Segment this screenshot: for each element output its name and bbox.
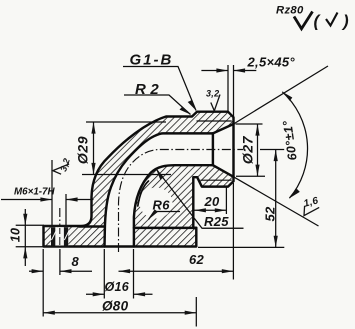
svg-text:3,2: 3,2: [206, 89, 219, 99]
svg-text:62: 62: [189, 252, 205, 267]
R6 fillet hook arc: [138, 181, 149, 206]
Ø27: [255, 124, 259, 136]
roughness tick top (3,2): [211, 95, 220, 111]
Ø29 ext lines: [86, 121, 166, 123]
R6 arrow: [149, 209, 158, 219]
60 deg arc: [282, 92, 307, 198]
52 dim: [275, 150, 277, 248]
G1-B leader: [123, 67, 196, 111]
62: [119, 269, 131, 273]
2,5x45 dim line: [201, 70, 228, 72]
M6 dim line: [1, 199, 52, 201]
outer contour left/top: [44, 112, 234, 247]
bore outer curve: [105, 133, 213, 246]
svg-text:М6×1-7Н: М6×1-7Н: [14, 187, 55, 198]
R2 leader arrow: [180, 107, 191, 115]
svg-text:1,6: 1,6: [303, 195, 320, 209]
R6 leader: [149, 212, 181, 220]
centerlines dash-dot: [60, 150, 243, 253]
M6: [40, 197, 52, 201]
threaded hole in flange: [44, 226, 69, 247]
thin thread root lines on spigot: [197, 121, 232, 180]
svg-text:Rz80: Rz80: [276, 5, 304, 17]
svg-text:R2: R2: [135, 81, 163, 98]
svg-text:G1-B: G1-B: [130, 52, 174, 69]
svg-text:52: 52: [263, 206, 278, 222]
8: [32, 269, 44, 273]
svg-text:R6: R6: [153, 198, 171, 213]
svg-text:Ø27: Ø27: [240, 135, 256, 164]
Ø80 dim: [43, 312, 196, 314]
10: [23, 214, 27, 226]
part outline strokes: [44, 112, 234, 247]
arrowheads: [23, 68, 300, 314]
Ø80: [43, 311, 55, 315]
svg-text:R25: R25: [204, 214, 229, 229]
hatched section region B: inner corner blob + disc + bottom spigot band: [134, 165, 234, 246]
G1-B leader arrow: [188, 100, 196, 110]
svg-text:): ): [341, 12, 349, 31]
svg-text:20: 20: [204, 194, 221, 209]
roughness tick left (3,2): [53, 164, 69, 174]
svg-text:(: (: [314, 12, 322, 31]
R25 leader: [156, 169, 244, 229]
bore inner curve: [134, 165, 213, 246]
20: [194, 208, 206, 212]
10 ext lines: [16, 224, 44, 226]
Ø16: [93, 292, 105, 296]
10 dim line: [24, 209, 26, 266]
R25 arrow: [156, 169, 164, 180]
Ø27 dim: [257, 124, 259, 176]
cone circle edge: [212, 133, 214, 165]
svg-text:8: 8: [72, 254, 80, 269]
svg-text:2,5×45°: 2,5×45°: [247, 55, 296, 70]
small check in parens: [326, 13, 338, 26]
svg-text:10: 10: [9, 228, 23, 243]
svg-text:Ø80: Ø80: [102, 299, 129, 314]
Ø29: [91, 122, 95, 134]
cone slants (thick inside part): [213, 124, 234, 133]
Ø16 dim: [86, 293, 104, 295]
svg-text:Ø16: Ø16: [105, 280, 130, 294]
2,5x45 ext lines: [227, 65, 229, 111]
60 deg slant lines: [234, 66, 329, 124]
white pocket around R6 label: [140, 188, 173, 219]
roughness tick on slant (1,6): [304, 206, 319, 216]
20 dim: [194, 209, 226, 211]
8 dim line: [29, 270, 43, 272]
8 / Ø80 ext lines: [42, 249, 44, 317]
M6 ext lines: [51, 160, 53, 225]
svg-text:3,2: 3,2: [58, 157, 72, 173]
R2 leader: [124, 95, 191, 115]
Ø29 dim line: [93, 122, 95, 175]
Rz80 check mark: [294, 12, 313, 29]
2,5: [216, 68, 228, 72]
62 dim line: [119, 270, 234, 272]
R25 underline: [202, 227, 244, 229]
flange top line behind section: [79, 225, 105, 227]
60 arc arrows: [282, 92, 292, 101]
52: [274, 150, 278, 162]
hatched section region A: left wall + flange slab + top spigot band: [44, 112, 234, 247]
svg-text:Ø29: Ø29: [75, 136, 91, 164]
svg-text:60°±1°: 60°±1°: [280, 119, 300, 161]
